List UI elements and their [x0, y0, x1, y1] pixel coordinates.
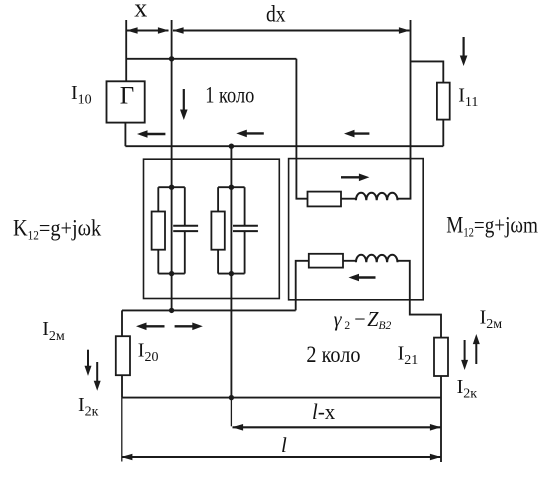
junction dot (group2 top) — [229, 185, 234, 190]
wire: middle rail (circuit 2 top) — [122, 309, 296, 311]
current arrow down (right) — [461, 340, 468, 370]
wire: top rail of circuit 1 — [126, 58, 296, 60]
svg-text:I20: I20 — [138, 340, 159, 366]
junction dot (bottom rail c1 / conductor 2) — [229, 144, 234, 149]
wire: RL branch 2 left drop — [296, 261, 309, 311]
label I21 — [398, 343, 419, 369]
current arrow up (right) — [473, 334, 480, 364]
inductor (RL branch 2) — [356, 255, 398, 262]
svg-text:x: x — [134, 0, 147, 23]
junction dot (group1 top) — [169, 185, 174, 190]
svg-text:γ 2 − ZB2: γ 2 − ZB2 — [334, 308, 392, 331]
box K12 — [144, 159, 280, 298]
wire: I20 bottom drop — [121, 375, 123, 397]
resistor (RL branch 1) — [308, 192, 342, 207]
resistor I20 — [116, 336, 130, 375]
dimension arrow l-x — [232, 424, 441, 431]
wire: left riser (generator to top rail, with extension) — [125, 20, 127, 81]
extension line (l left) — [121, 398, 123, 462]
capacitor (RC group 1) — [173, 226, 198, 231]
resistor I11 branch top wire — [411, 61, 444, 82]
junction dot (group2 bottom) — [229, 271, 234, 276]
wire: dx-side conductor (top to RL branch 1 right) — [398, 20, 411, 199]
current arrow left (circuit 2 pair) — [136, 323, 165, 331]
junction dot (group1 bottom) — [169, 271, 174, 276]
junction dot (bottom rail / conductor 2) — [229, 395, 234, 400]
svg-text:M12=g+jωm: M12=g+jωm — [446, 212, 538, 240]
label γ2−ZB2 — [334, 308, 392, 331]
wire: RL branch 2 right drop to I21 — [398, 261, 442, 338]
label 1 коло — [205, 82, 254, 109]
label M12=g+jωm — [446, 212, 538, 240]
current arrow down (circuit 1) — [180, 89, 188, 120]
resistor I11 — [437, 83, 450, 120]
svg-text:I2к: I2к — [78, 394, 99, 420]
dimension arrow x — [127, 27, 169, 34]
current arrow left (mid rail c1) — [236, 130, 263, 138]
svg-text:l-x: l-x — [312, 400, 335, 425]
current arrow right (RL branch 1) — [341, 174, 369, 182]
RC group 2 loop — [218, 187, 245, 273]
svg-text:1 коло: 1 коло — [205, 82, 254, 109]
extension line (l-x at conductor 2) — [230, 398, 232, 427]
box M12 — [289, 159, 424, 300]
svg-text:I11: I11 — [458, 85, 478, 111]
label 2 коло — [306, 342, 360, 367]
label I10 — [71, 82, 92, 108]
label l-x — [312, 400, 335, 425]
svg-text:I10: I10 — [71, 82, 92, 108]
generator U (box Г) — [107, 81, 145, 122]
current arrow left (RL branch 2) — [349, 274, 376, 282]
wire: bottom rail (circuit 2) — [122, 397, 441, 399]
wire RL branch 2 mid — [343, 260, 356, 262]
dimension label x — [134, 0, 147, 23]
label I2K (left) — [78, 394, 99, 420]
label I2M (right) — [480, 307, 503, 333]
label I11 — [458, 85, 478, 111]
svg-text:I21: I21 — [398, 343, 419, 369]
dimension label dx — [266, 1, 286, 27]
current arrow left (right rail c1) — [344, 130, 369, 138]
extension line mid (x|dx) — [171, 20, 173, 59]
resistor (RL branch 2) — [309, 254, 343, 268]
wire: conductor 2 (main right vertical) — [230, 146, 232, 397]
svg-text:Г: Г — [120, 83, 134, 110]
wire: I21 bottom drop with extension — [440, 376, 442, 462]
svg-text:I2м: I2м — [480, 307, 503, 333]
label l — [281, 433, 287, 457]
dimension arrow l — [121, 454, 441, 461]
current arrow down 2 (left) — [94, 362, 101, 391]
svg-text:2 коло: 2 коло — [306, 342, 360, 367]
label I20 — [138, 340, 159, 366]
svg-text:l: l — [281, 433, 287, 457]
svg-text:I2к: I2к — [457, 376, 478, 402]
junction dot (top rail / conductor 1) — [169, 56, 174, 61]
RC group 1 loop — [158, 187, 185, 273]
wire RL branch 1 mid — [341, 198, 356, 200]
junction dot (middle rail / conductor 1) — [169, 308, 174, 313]
resistor I11 bottom wire — [442, 120, 444, 147]
resistor (RC group 1) — [152, 212, 165, 250]
inductor (RL branch 1) — [356, 193, 398, 200]
label I2K (right) — [457, 376, 478, 402]
current arrow down 1 (left) — [85, 350, 92, 376]
capacitor (RC group 2) — [233, 226, 258, 231]
resistor I21 — [434, 338, 448, 376]
wire: bottom rail of circuit 1 — [125, 145, 443, 147]
wire: I20 top drop — [121, 310, 123, 336]
resistor (RC group 2) — [211, 212, 224, 250]
wire: circuit 1 right vertical to RL branch 1 — [296, 59, 307, 199]
label I2M (left) — [42, 318, 65, 344]
current arrow down (near I11) — [460, 37, 468, 66]
svg-text:K12=g+jωk: K12=g+jωk — [13, 214, 101, 243]
current arrow right (circuit 2 pair) — [175, 323, 203, 331]
label K12=g+jωk — [13, 214, 101, 243]
wire: generator bottom drop — [124, 123, 126, 147]
svg-text:I2м: I2м — [42, 318, 65, 344]
dimension arrow dx — [173, 27, 410, 34]
svg-text:dx: dx — [266, 1, 286, 27]
current arrow left (under generator) — [137, 130, 165, 138]
wire: conductor 1 (main left vertical) — [171, 59, 173, 310]
